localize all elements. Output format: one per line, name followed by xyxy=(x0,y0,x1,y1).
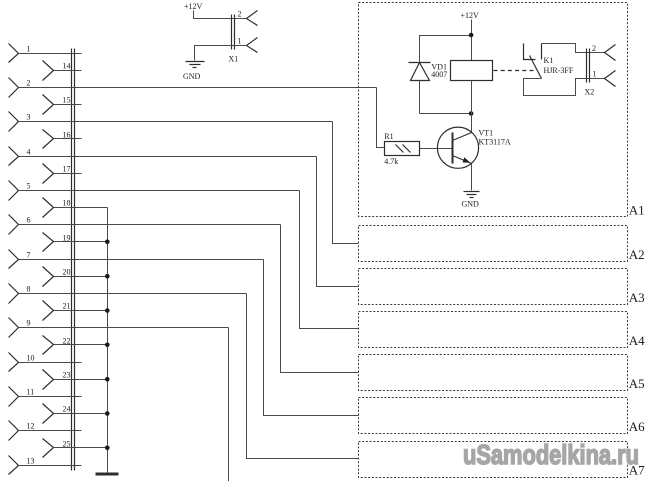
wire pin 20 xyxy=(54,276,108,278)
resistor R1 xyxy=(384,132,419,166)
svg-text:KT3117A: KT3117A xyxy=(479,137,511,146)
node junction top rail xyxy=(469,33,474,38)
pin 14 xyxy=(43,61,71,81)
pin 18 xyxy=(43,198,71,218)
wire NO contact to X2 pin 2 xyxy=(542,44,605,53)
wire pin 24 xyxy=(54,413,108,415)
pin 21 xyxy=(43,301,71,321)
svg-text:+12V: +12V xyxy=(184,2,203,11)
svg-text:5: 5 xyxy=(27,182,31,191)
svg-text:GND: GND xyxy=(183,72,201,81)
wire pin 4 xyxy=(19,156,317,158)
wire pin 1 xyxy=(19,53,82,55)
svg-text:10: 10 xyxy=(27,354,35,363)
module A7 box xyxy=(359,442,628,478)
svg-text:6: 6 xyxy=(27,216,31,225)
wire pin 3 xyxy=(19,121,333,123)
relay contact K1: NO terminal xyxy=(541,44,543,60)
svg-text:A1: A1 xyxy=(629,203,645,218)
svg-text:+12V: +12V xyxy=(461,11,480,20)
wire pin 17 xyxy=(54,173,82,175)
wire pin 13 xyxy=(19,465,82,467)
connector X2 body xyxy=(587,49,590,83)
pin 6 xyxy=(9,215,31,235)
svg-text:2: 2 xyxy=(27,79,31,88)
module A5 box xyxy=(359,355,628,391)
wire +12V to X1 pin2 xyxy=(194,11,247,19)
wire pin 3 to A2 input xyxy=(333,122,359,244)
diode VD1 xyxy=(409,53,448,114)
node junction bus/pin 22 xyxy=(105,343,110,348)
pin 9 xyxy=(9,318,31,338)
pin 24 xyxy=(43,404,71,424)
svg-text:A6: A6 xyxy=(629,419,645,434)
pin 13 xyxy=(9,456,35,475)
wire pin 4 to A3 input xyxy=(317,157,359,287)
wire pin 10 xyxy=(19,362,82,364)
wire pin 25 xyxy=(54,447,108,449)
wire pin 5 xyxy=(19,190,300,192)
X1 pin 2 xyxy=(238,10,258,26)
svg-text:GND: GND xyxy=(462,200,480,209)
svg-text:12: 12 xyxy=(27,422,35,431)
svg-text:13: 13 xyxy=(27,457,35,466)
wire X1 pin1 to GND xyxy=(195,46,247,61)
node junction bus/pin 23 xyxy=(105,377,110,382)
pin 25 xyxy=(43,439,71,458)
wire pin 23 xyxy=(54,379,108,381)
pin 1 xyxy=(9,44,31,63)
ground GND (X1) xyxy=(183,62,205,82)
pin 22 xyxy=(43,336,71,355)
pin 10 xyxy=(9,353,35,372)
pin 7 xyxy=(9,250,31,269)
svg-text:A5: A5 xyxy=(629,376,645,391)
wire pin 12 xyxy=(19,430,82,432)
node junction bus/pin 25 xyxy=(105,446,110,451)
relay contact K1: NC terminal xyxy=(524,44,536,60)
wire pin 2 xyxy=(19,87,377,89)
wire +12V to coil K1 xyxy=(471,20,473,61)
node junction bus/pin 21 xyxy=(105,308,110,313)
relay coil K1 xyxy=(451,61,493,81)
svg-text:2: 2 xyxy=(238,10,242,19)
wire pin 19 xyxy=(54,241,108,243)
svg-text:uSamodelkina.ru: uSamodelkina.ru xyxy=(463,439,639,470)
svg-text:X2: X2 xyxy=(585,88,595,97)
wire bottom rail xyxy=(420,113,472,115)
X1 pin 1 xyxy=(238,37,258,53)
module A3 box xyxy=(359,269,628,305)
pin 2 xyxy=(9,78,31,98)
svg-text:A4: A4 xyxy=(629,333,645,348)
wire pin 16 xyxy=(54,138,82,140)
svg-text:HJR-3FF: HJR-3FF xyxy=(544,66,574,75)
wire pin 7 to A6 input xyxy=(264,260,359,416)
wire pin 11 xyxy=(19,396,82,398)
wire pin 9 down xyxy=(228,328,230,481)
wire arm to X2 pin 1 xyxy=(524,79,605,96)
wire pin 5 to A4 input xyxy=(300,191,359,329)
svg-text:4.7k: 4.7k xyxy=(384,157,398,166)
node junction bottom rail xyxy=(469,111,474,116)
wire pin 14 xyxy=(54,70,82,72)
svg-text:R1: R1 xyxy=(384,132,393,141)
pin 15 xyxy=(43,95,71,115)
pin 12 xyxy=(9,421,35,441)
pin 16 xyxy=(43,130,71,149)
node junction bus/pin 20 xyxy=(105,274,110,279)
wire pin 2 to R1 input xyxy=(377,88,385,148)
wire top rail xyxy=(420,36,472,53)
X2 pin 1 xyxy=(593,70,616,87)
svg-text:20: 20 xyxy=(63,268,71,277)
pin 23 xyxy=(43,370,71,390)
module A4 box xyxy=(359,312,628,348)
node junction bus/pin 24 xyxy=(105,411,110,416)
svg-text:1: 1 xyxy=(27,45,31,54)
wire pin 21 xyxy=(54,310,108,312)
svg-text:1: 1 xyxy=(238,37,242,46)
X2 pin 2 xyxy=(592,44,616,61)
svg-text:24: 24 xyxy=(63,405,71,414)
svg-text:2: 2 xyxy=(592,44,596,53)
mechanical link (dashed) xyxy=(494,70,535,72)
svg-text:15: 15 xyxy=(63,96,71,105)
pin 19 xyxy=(43,233,71,252)
node junction bus/pin 19 xyxy=(105,240,110,245)
svg-text:8: 8 xyxy=(27,285,31,294)
wire pin 6 to A5 input xyxy=(281,225,359,373)
svg-text:23: 23 xyxy=(63,371,71,380)
wire pin 8 to A7 input xyxy=(247,294,359,459)
wire pin 7 xyxy=(19,259,264,261)
module A6 box xyxy=(359,398,628,434)
module A1 box xyxy=(359,3,628,217)
transistor VT1 xyxy=(437,127,510,168)
svg-text:X1: X1 xyxy=(229,55,239,64)
connector XP1 body (double line) xyxy=(72,49,75,471)
wire pin 15 xyxy=(54,104,82,106)
wire pin 18 xyxy=(54,207,108,209)
wire coil to collector xyxy=(471,81,473,133)
wire ground bus xyxy=(107,208,109,474)
svg-text:VT1: VT1 xyxy=(479,128,494,137)
svg-text:K1: K1 xyxy=(544,56,554,65)
pin 4 xyxy=(9,147,31,166)
pin 11 xyxy=(9,387,35,407)
wire pin 22 xyxy=(54,344,108,346)
wire pin 6 xyxy=(19,224,281,226)
svg-text:17: 17 xyxy=(63,165,71,174)
svg-text:9: 9 xyxy=(27,319,31,328)
pin 20 xyxy=(43,267,71,287)
svg-text:4: 4 xyxy=(27,148,31,157)
svg-text:3: 3 xyxy=(27,113,31,122)
ground GND (VT1) xyxy=(462,192,480,209)
relay contact K1: moving arm xyxy=(530,56,542,79)
svg-text:21: 21 xyxy=(63,302,71,311)
pin 5 xyxy=(9,181,31,201)
wire emitter to GND xyxy=(471,164,473,191)
ground (chassis) xyxy=(96,473,119,476)
wire pin 8 xyxy=(19,293,247,295)
pin 17 xyxy=(43,164,71,184)
svg-text:7: 7 xyxy=(27,251,31,260)
svg-text:11: 11 xyxy=(27,388,35,397)
svg-text:A3: A3 xyxy=(629,290,645,305)
svg-text:1: 1 xyxy=(593,70,597,79)
svg-text:18: 18 xyxy=(63,199,71,208)
pin 3 xyxy=(9,112,31,132)
connector X1 body xyxy=(232,15,235,50)
wire R1 to base xyxy=(420,148,453,150)
module A2 box xyxy=(359,226,628,262)
pin 8 xyxy=(9,284,31,304)
svg-text:4007: 4007 xyxy=(431,70,447,79)
svg-text:A2: A2 xyxy=(629,247,645,262)
wire pin 9 xyxy=(19,327,229,329)
svg-text:14: 14 xyxy=(63,62,71,71)
